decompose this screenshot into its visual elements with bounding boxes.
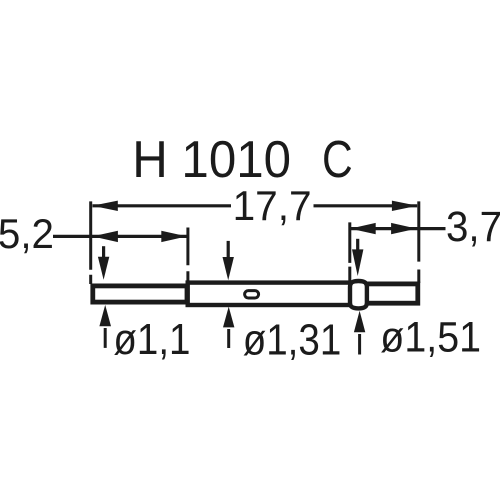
svg-text:3,7: 3,7 <box>446 203 500 250</box>
svg-text:ø1,31: ø1,31 <box>243 316 342 365</box>
svg-text:ø1,51: ø1,51 <box>380 313 481 361</box>
svg-text:C: C <box>322 130 353 188</box>
svg-text:5,2: 5,2 <box>0 210 54 257</box>
svg-text:ø1,1: ø1,1 <box>113 315 190 364</box>
svg-text:H 1010: H 1010 <box>132 130 291 188</box>
svg-text:17,7: 17,7 <box>233 182 312 229</box>
